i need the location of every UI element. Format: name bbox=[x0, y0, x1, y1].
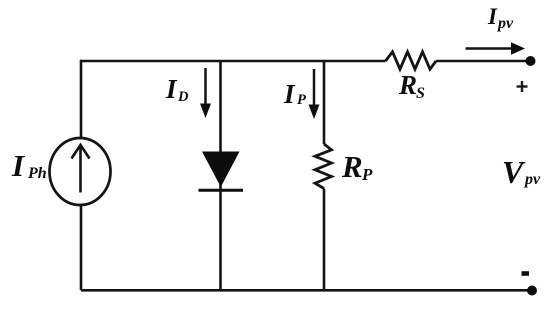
svg-text:I: I bbox=[165, 74, 178, 104]
current arrow I_P bbox=[309, 69, 320, 119]
label V_pv bbox=[502, 154, 541, 190]
label R_S bbox=[398, 70, 425, 102]
label I_D bbox=[165, 74, 189, 105]
svg-text:I: I bbox=[487, 4, 498, 29]
svg-text:pv: pv bbox=[523, 171, 541, 188]
diode D1 bbox=[199, 152, 244, 191]
svg-text:P: P bbox=[297, 92, 306, 108]
resistor R_P bbox=[315, 144, 332, 189]
svg-text:I: I bbox=[283, 79, 296, 109]
wire: shunt branch vertical upper bbox=[323, 61, 326, 144]
svg-text:I: I bbox=[11, 148, 25, 183]
label - terminal bbox=[522, 271, 530, 276]
svg-text:R: R bbox=[341, 149, 363, 184]
label + terminal bbox=[517, 81, 528, 92]
svg-text:D: D bbox=[177, 89, 189, 105]
current arrow I_pv bbox=[466, 42, 526, 55]
wire: shunt branch vertical lower bbox=[323, 189, 326, 291]
current source I_Ph bbox=[50, 138, 111, 205]
current arrow I_D bbox=[200, 68, 211, 118]
wire: bottom rail bbox=[81, 289, 532, 292]
label I_P bbox=[283, 79, 306, 109]
node: positive terminal dot bbox=[526, 56, 536, 66]
svg-text:pv: pv bbox=[496, 15, 514, 32]
svg-text:Ph: Ph bbox=[27, 165, 47, 182]
wire: top rail right segment bbox=[436, 60, 530, 63]
wire: left branch vertical bbox=[80, 60, 83, 290]
svg-text:V: V bbox=[502, 154, 526, 190]
wire: diode branch vertical bbox=[219, 61, 222, 290]
svg-text:S: S bbox=[416, 85, 425, 102]
wire: top rail left segment bbox=[81, 60, 386, 63]
label R_P bbox=[341, 149, 373, 184]
label I_Ph bbox=[11, 148, 47, 183]
svg-text:P: P bbox=[361, 165, 373, 184]
svg-text:R: R bbox=[398, 70, 417, 100]
resistor R_S bbox=[386, 52, 437, 69]
label I_pv bbox=[487, 4, 514, 32]
node: negative terminal dot bbox=[527, 286, 537, 296]
